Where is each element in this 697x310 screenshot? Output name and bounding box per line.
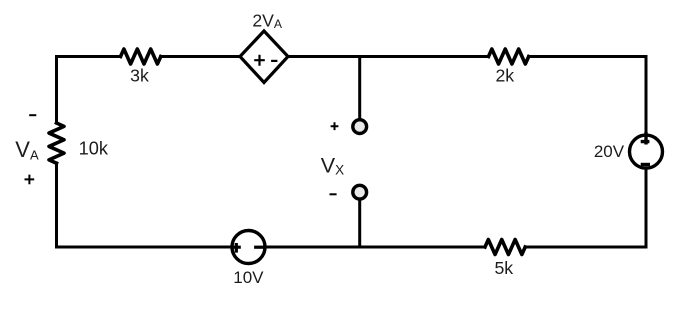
polarity + below VA bbox=[25, 175, 35, 185]
polarity - inside diamond bbox=[271, 60, 277, 62]
terminal + (node Vx+) bbox=[353, 120, 367, 134]
polarity + inside 20V bbox=[641, 132, 650, 145]
voltage source 10V bbox=[232, 231, 265, 264]
svg-text:2VA: 2VA bbox=[252, 11, 283, 32]
polarity + inside diamond bbox=[254, 55, 265, 66]
wire bbox=[529, 57, 646, 135]
polarity - inside 20V bbox=[641, 163, 650, 166]
svg-text:VX: VX bbox=[321, 154, 344, 178]
wire bbox=[358, 57, 361, 119]
svg-text:20V: 20V bbox=[594, 142, 625, 161]
resistor 10k bbox=[49, 123, 64, 163]
voltage source 20V bbox=[630, 135, 663, 168]
wire bbox=[57, 163, 232, 247]
polarity - at Vx bottom terminal bbox=[330, 193, 337, 195]
svg-text:5k: 5k bbox=[494, 258, 513, 278]
svg-text:10k: 10k bbox=[79, 138, 109, 158]
polarity - inside 10V bbox=[254, 246, 265, 249]
resistor 3k bbox=[121, 49, 161, 64]
svg-text:VA: VA bbox=[15, 137, 39, 162]
svg-text:10V: 10V bbox=[233, 268, 264, 287]
terminal - (node Vx-) bbox=[353, 185, 367, 199]
resistor 5k bbox=[485, 240, 525, 255]
wire bbox=[525, 170, 646, 247]
wire bbox=[288, 55, 488, 58]
svg-text:2k: 2k bbox=[495, 66, 514, 86]
wire bbox=[358, 201, 361, 248]
resistor 2k bbox=[489, 49, 529, 64]
polarity - above VA bbox=[29, 114, 36, 116]
polarity + at Vx top terminal bbox=[331, 122, 339, 130]
polarity + inside 10V bbox=[231, 243, 241, 253]
wire bbox=[161, 55, 240, 58]
wire bbox=[266, 246, 486, 249]
svg-text:3k: 3k bbox=[130, 66, 149, 86]
wire bbox=[57, 57, 121, 124]
dependent source 2VA (diamond) bbox=[240, 31, 288, 83]
